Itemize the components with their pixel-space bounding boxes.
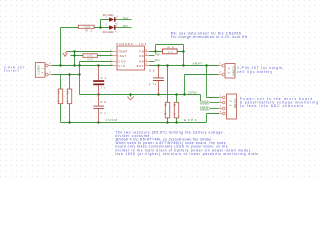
capacitor C2	[93, 95, 106, 123]
svg-text:CONN: CONN	[37, 65, 41, 74]
wire FB row and loop around R6	[149, 45, 184, 66]
connector X1 solar	[35, 61, 51, 77]
resistor R2	[83, 54, 102, 62]
xref flag SENS	[201, 107, 211, 111]
wire arrow to TEMP pin1	[67, 51, 113, 53]
node arrow row	[73, 50, 75, 52]
svg-text:C2: C2	[100, 100, 106, 104]
svg-text:VIN: VIN	[118, 64, 125, 68]
IC U1 CN3063	[110, 42, 149, 70]
capacitor C1 electrolytic	[93, 66, 106, 95]
connector X2 battery	[219, 61, 236, 78]
resistor R7	[173, 102, 179, 118]
wire D2 cathode to DO label	[116, 27, 132, 29]
node solar minus	[68, 73, 70, 75]
svg-text:D2 LED: D2 LED	[103, 30, 114, 34]
wire TAP rail	[61, 114, 220, 123]
node VIN rail junctions	[59, 64, 61, 66]
wire xref flag2 to pin3	[210, 108, 219, 110]
wire R1 left branch down to VIN rail	[61, 28, 79, 66]
wire R3 R4 leads	[61, 75, 70, 123]
ground symbol	[127, 97, 133, 100]
resistor R5	[164, 102, 170, 118]
svg-text:CH: CH	[155, 52, 160, 56]
resistor R3	[57, 89, 63, 104]
wire VIN rail left segment	[52, 65, 113, 67]
wire pin3 row	[80, 61, 113, 63]
xref flag GNDA	[201, 101, 211, 105]
svg-text:cell lipo battery: cell lipo battery	[237, 70, 272, 74]
svg-text:TEMP: TEMP	[118, 50, 127, 54]
svg-text:GNDA: GNDA	[201, 102, 208, 105]
svg-text:to feed into ADC channels: to feed into ADC channels	[240, 104, 303, 108]
svg-text:1u: 1u	[101, 86, 106, 90]
svg-text:DN: DN	[139, 60, 143, 64]
wire VBAT rail	[149, 65, 219, 67]
node VBAT rail	[157, 64, 159, 66]
svg-text:0.1: 0.1	[100, 111, 106, 115]
svg-text:CONN: CONN	[233, 99, 237, 108]
wire R7 top lead	[176, 95, 178, 103]
svg-text:FB: FB	[139, 50, 143, 54]
diode D2 LED	[103, 24, 118, 34]
svg-text:CN3063: CN3063	[116, 42, 133, 46]
svg-text:ISET: ISET	[118, 54, 127, 58]
svg-text:C3: C3	[149, 69, 155, 73]
wire VBAT drop to X3 pin1	[207, 66, 220, 98]
wire CH stub	[149, 55, 155, 57]
wire xref flag1 to pin2	[210, 102, 219, 104]
svg-text:BAT: BAT	[137, 64, 144, 68]
supply arrow symbol near R2	[63, 53, 68, 57]
svg-text:CAD: CAD	[118, 60, 125, 64]
wire GND arrow stem	[130, 95, 132, 97]
wire vertical arrow branch	[74, 52, 76, 66]
wire GND rail	[80, 95, 201, 102]
wire R5 R7 bottom leads	[168, 118, 177, 123]
svg-text:1k5: 1k5	[87, 55, 93, 58]
wire D1 cathode to CH label	[116, 19, 132, 21]
resistor R4	[66, 89, 72, 104]
svg-text:GND: GND	[189, 91, 198, 95]
capacitor C3	[149, 66, 164, 95]
wire battery pin2 to GND	[185, 75, 219, 95]
svg-text:CH: CH	[123, 16, 128, 20]
svg-text:(solar): (solar)	[4, 69, 19, 73]
wire R1 right to LED split node	[94, 20, 109, 28]
wire vertical x79.5 down to GND rail	[79, 62, 81, 95]
resistor R6	[158, 46, 178, 58]
node FB row	[154, 50, 156, 52]
connector X3 micro board	[219, 93, 237, 119]
node TAP rail	[68, 121, 70, 123]
svg-text:For charge termination of 4.2V: For charge termination of 4.2V, dont 5%	[171, 35, 248, 39]
svg-text:C1: C1	[101, 76, 107, 80]
IC right pin stubs	[145, 52, 150, 66]
wire solar minus rail	[52, 74, 80, 76]
svg-text:VBAT: VBAT	[193, 61, 203, 65]
node R1/LED split	[99, 26, 101, 28]
svg-text:EXP4: EXP4	[184, 118, 197, 122]
svg-text:DO: DO	[155, 58, 160, 62]
svg-text:4.7u: 4.7u	[149, 82, 157, 86]
wire R2 row	[71, 55, 113, 57]
svg-text:Use 150K (or higher) resistors: Use 150K (or higher) resistors to lower …	[116, 152, 261, 156]
junction dots	[59, 26, 207, 123]
wires	[52, 20, 220, 123]
svg-text:SENS: SENS	[201, 108, 208, 111]
wire DO stub	[149, 61, 155, 63]
wire R5 top lead	[167, 66, 169, 103]
svg-text:2k: 2k	[168, 51, 173, 54]
svg-text:2k2: 2k2	[87, 57, 93, 61]
resistor R1	[78, 25, 94, 32]
diode D1 LED	[103, 13, 118, 25]
svg-text:DO: DO	[123, 24, 128, 28]
node GND rail	[97, 93, 99, 95]
svg-text:CONN: CONN	[231, 67, 235, 76]
IC left pin stubs	[113, 52, 118, 66]
svg-text:DR: DR	[139, 54, 143, 58]
